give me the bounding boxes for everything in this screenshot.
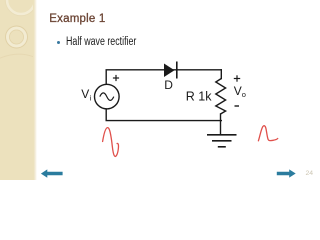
svg-text:V: V <box>234 84 242 98</box>
ac source Vi <box>95 84 120 109</box>
svg-text:D: D <box>164 78 173 92</box>
plus sign source <box>113 75 119 81</box>
wire right lower to ground <box>220 114 222 135</box>
title: Example 1 <box>49 13 105 25</box>
label Vi (source name) <box>81 87 91 102</box>
minus sign output <box>235 105 240 107</box>
resistor R 1k <box>216 79 226 115</box>
red input sine annotation <box>103 128 119 157</box>
svg-text:V: V <box>81 87 89 101</box>
label Vo <box>234 84 246 99</box>
ground <box>207 135 237 147</box>
wire right upper <box>220 70 222 79</box>
red output pulse annotation <box>258 126 277 141</box>
diode D <box>164 62 177 79</box>
sidebar background <box>0 0 37 180</box>
nav arrow left <box>41 169 63 177</box>
svg-text:i: i <box>90 94 92 103</box>
bullet text: Half wave rectifier <box>66 36 136 48</box>
svg-text:24: 24 <box>306 170 314 177</box>
wire top <box>106 70 221 84</box>
bullet dot <box>57 41 60 44</box>
svg-text:o: o <box>242 90 246 99</box>
svg-text:R 1k: R 1k <box>186 89 212 103</box>
sidebar decoration <box>0 0 33 180</box>
plus sign output <box>234 75 240 81</box>
nav arrow right <box>277 169 296 177</box>
wire bottom <box>106 109 221 121</box>
